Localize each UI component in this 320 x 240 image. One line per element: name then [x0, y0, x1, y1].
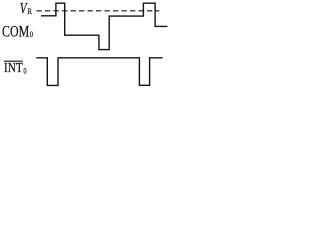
label VR — [20, 0, 32, 17]
svg-text:R: R — [28, 6, 32, 16]
INT0 waveform — [36, 58, 162, 86]
label COM0 — [2, 23, 33, 41]
svg-text:0: 0 — [30, 29, 33, 39]
svg-text:INT: INT — [4, 60, 23, 75]
COM0 waveform — [41, 3, 168, 49]
label INT0 with overline — [4, 60, 27, 76]
VR reference dashed line — [37, 10, 160, 12]
svg-text:V: V — [20, 0, 28, 17]
svg-text:0: 0 — [23, 65, 26, 75]
svg-text:COM: COM — [2, 23, 29, 41]
